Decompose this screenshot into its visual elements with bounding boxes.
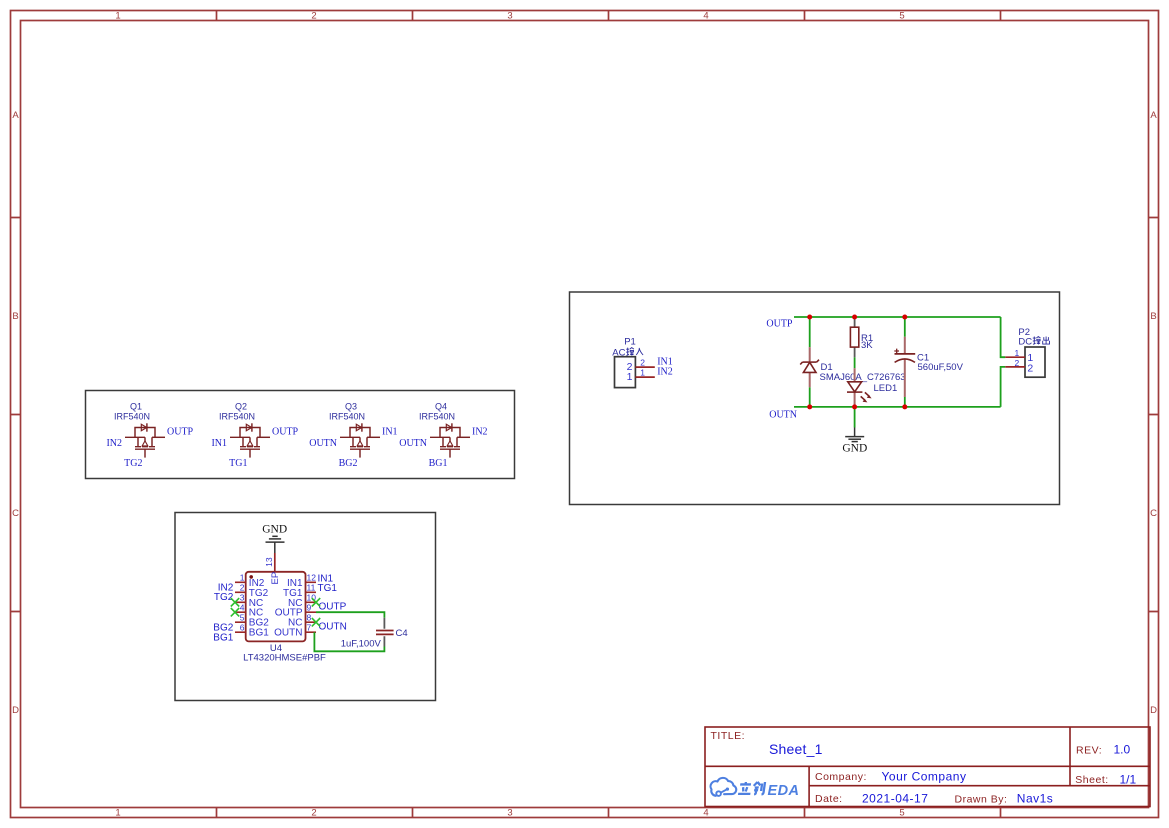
svg-text:TG1: TG1: [318, 583, 338, 594]
frame row ticks right: [1149, 218, 1159, 612]
block box controller U4: [175, 513, 436, 701]
svg-text:1: 1: [115, 11, 120, 22]
U4 right pin names: [274, 578, 303, 639]
svg-text:11: 11: [307, 583, 316, 593]
P1 pin 2: [635, 366, 654, 368]
wire R1 branch: [854, 317, 856, 357]
logo cloud icon: [711, 778, 737, 796]
svg-text:OUTP: OUTP: [167, 427, 194, 438]
svg-text:1.0: 1.0: [1114, 743, 1131, 757]
svg-text:BG1: BG1: [213, 633, 233, 644]
svg-text:5: 5: [899, 808, 904, 819]
svg-text:6: 6: [240, 622, 245, 632]
wire C4 bottom to OUTN pin7: [314, 632, 384, 651]
svg-text:Date:: Date:: [815, 793, 843, 805]
svg-text:IN2: IN2: [657, 367, 673, 378]
svg-text:1: 1: [640, 368, 645, 378]
svg-text:3: 3: [240, 593, 245, 603]
svg-text:2: 2: [640, 358, 645, 368]
svg-text:OUTP: OUTP: [766, 318, 793, 329]
svg-text:Sheet_1: Sheet_1: [769, 741, 823, 757]
svg-text:7: 7: [307, 622, 312, 632]
block box transistors: [86, 391, 515, 479]
logo text 立创EDA: [738, 782, 765, 794]
wire OUTP rail: [794, 316, 1001, 318]
svg-text:OUTN: OUTN: [399, 438, 427, 449]
svg-text:1: 1: [240, 573, 245, 583]
svg-text:13: 13: [264, 557, 274, 567]
svg-text:5: 5: [240, 612, 245, 622]
wire OUTN to P2 pin2: [1001, 367, 1006, 407]
wire OUTN rail: [794, 406, 1001, 408]
no-connect X pin8: [312, 618, 320, 626]
svg-text:560uF,50V: 560uF,50V: [918, 362, 964, 373]
svg-text:IRF540N: IRF540N: [114, 412, 150, 422]
transistor Q2: [230, 423, 270, 457]
svg-text:A: A: [1150, 110, 1157, 121]
svg-text:C: C: [12, 508, 19, 519]
svg-text:Your Company: Your Company: [882, 770, 967, 784]
connector P1: [612, 336, 672, 387]
U4 left net labels: [213, 583, 233, 644]
transistor Q4: [430, 423, 470, 457]
frame row ticks left: [11, 218, 21, 612]
glyph 入: [636, 348, 643, 355]
svg-text:EP: EP: [270, 572, 281, 585]
svg-text:GND: GND: [842, 443, 867, 455]
svg-text:9: 9: [307, 602, 312, 612]
svg-text:Sheet:: Sheet:: [1075, 774, 1108, 786]
svg-text:IN2: IN2: [106, 438, 122, 449]
svg-text:1uF,100V: 1uF,100V: [341, 638, 382, 649]
IC U4 body: [246, 572, 306, 642]
svg-text:1: 1: [627, 371, 633, 383]
svg-text:D: D: [12, 705, 19, 716]
svg-text:OUTP: OUTP: [272, 427, 299, 438]
svg-text:2: 2: [240, 583, 245, 593]
svg-text:1: 1: [1015, 348, 1020, 358]
svg-text:BG2: BG2: [339, 458, 358, 469]
svg-text:4: 4: [703, 11, 708, 22]
svg-text:Q1: Q1: [130, 402, 142, 412]
wire GND stem: [854, 407, 856, 428]
LED LED1: [854, 368, 856, 407]
svg-text:TITLE:: TITLE:: [711, 730, 746, 742]
svg-text:2: 2: [311, 11, 316, 22]
glyph 输: [626, 348, 634, 356]
svg-text:Q4: Q4: [435, 402, 447, 412]
wire OUTP to P2 pin1: [1001, 317, 1006, 357]
svg-text:A: A: [12, 110, 19, 121]
svg-text:OUTP: OUTP: [319, 601, 347, 612]
no-connect X pin10: [312, 598, 320, 606]
svg-text:5: 5: [899, 11, 904, 22]
svg-text:3: 3: [507, 808, 512, 819]
wire D1 branch: [809, 317, 811, 407]
svg-text:2021-04-17: 2021-04-17: [862, 792, 928, 806]
svg-text:IRF540N: IRF540N: [419, 412, 455, 422]
svg-text:1: 1: [115, 808, 120, 819]
svg-text:LT4320HMSE#PBF: LT4320HMSE#PBF: [243, 652, 326, 663]
connector P2: [1005, 327, 1049, 377]
svg-text:B: B: [12, 311, 18, 322]
svg-text:4: 4: [240, 602, 245, 612]
diode D1 (TVS): [800, 360, 819, 373]
svg-text:TG1: TG1: [229, 458, 247, 469]
svg-text:C4: C4: [396, 628, 408, 639]
no-connect X pin3: [231, 598, 239, 606]
wire C1 branch: [904, 317, 906, 407]
svg-text:8: 8: [307, 612, 312, 622]
glyph 出: [1043, 337, 1050, 345]
svg-text:B: B: [1150, 311, 1156, 322]
svg-text:BG1: BG1: [249, 628, 269, 639]
ground (top of U4): [262, 524, 287, 553]
svg-text:Nav1s: Nav1s: [1017, 791, 1054, 805]
block box output: [570, 292, 1060, 505]
frame column ticks bottom: [217, 808, 1001, 818]
transistor Q1: [125, 423, 165, 457]
svg-text:3K: 3K: [861, 340, 873, 351]
U4 pin 13 (EP): [274, 553, 276, 572]
svg-text:Q3: Q3: [345, 402, 357, 412]
no-connect X pin4: [231, 608, 239, 616]
svg-text:3: 3: [507, 11, 512, 22]
svg-text:IRF540N: IRF540N: [329, 412, 365, 422]
svg-text:Q2: Q2: [235, 402, 247, 412]
svg-text:12: 12: [307, 573, 317, 583]
U4 left pin stubs: [235, 582, 246, 632]
U4 right pin stubs: [306, 582, 317, 632]
svg-text:GND: GND: [262, 524, 287, 536]
svg-text:1/1: 1/1: [1120, 772, 1137, 786]
svg-text:TG2: TG2: [124, 458, 142, 469]
svg-text:4: 4: [703, 808, 708, 819]
svg-text:P1: P1: [624, 336, 636, 347]
svg-text:2: 2: [1027, 362, 1033, 374]
svg-text:OUTN: OUTN: [274, 628, 302, 639]
U4 left pin numbers: [240, 573, 245, 633]
frame column ticks top: [217, 11, 1001, 21]
glyph 输: [1033, 337, 1041, 345]
junction dots OUTP rail: [807, 315, 812, 320]
junction dots OUTN rail: [807, 404, 812, 409]
U4 pin1 marker dot: [249, 575, 253, 579]
svg-text:TG2: TG2: [214, 592, 234, 603]
svg-text:IRF540N: IRF540N: [219, 412, 255, 422]
svg-text:Company:: Company:: [815, 771, 867, 783]
svg-text:OUTN: OUTN: [319, 621, 347, 632]
wire OUTP pin9 to C4: [316, 612, 384, 618]
svg-text:2: 2: [1015, 358, 1020, 368]
svg-text:DC: DC: [1018, 336, 1032, 347]
svg-text:BG1: BG1: [429, 458, 448, 469]
ground (output): [845, 428, 864, 442]
P2 pin 2: [1005, 366, 1025, 368]
U4 right net labels: [318, 573, 347, 632]
svg-text:OUTN: OUTN: [309, 438, 337, 449]
U4 left pin names: [249, 578, 269, 639]
P1 pin 1: [635, 376, 654, 378]
svg-text:OUTN: OUTN: [769, 410, 797, 421]
capacitor C4 plates: [376, 631, 394, 635]
svg-text:LED1: LED1: [874, 383, 898, 394]
svg-text:IN1: IN1: [382, 427, 398, 438]
transistor Q3: [340, 423, 380, 457]
svg-text:IN2: IN2: [472, 427, 488, 438]
svg-text:IN1: IN1: [211, 438, 227, 449]
svg-text:Drawn By:: Drawn By:: [955, 794, 1008, 806]
svg-text:D: D: [1150, 705, 1157, 716]
resistor R1: [850, 327, 858, 347]
capacitor C4 leads: [383, 618, 385, 647]
svg-text:C: C: [1150, 508, 1157, 519]
U4 right pin numbers: [307, 573, 317, 633]
svg-text:EDA: EDA: [768, 783, 800, 799]
P2 pin 1: [1005, 356, 1025, 358]
capacitor C1 (polarized): [894, 349, 915, 363]
svg-text:REV:: REV:: [1076, 745, 1102, 757]
svg-text:2: 2: [311, 808, 316, 819]
